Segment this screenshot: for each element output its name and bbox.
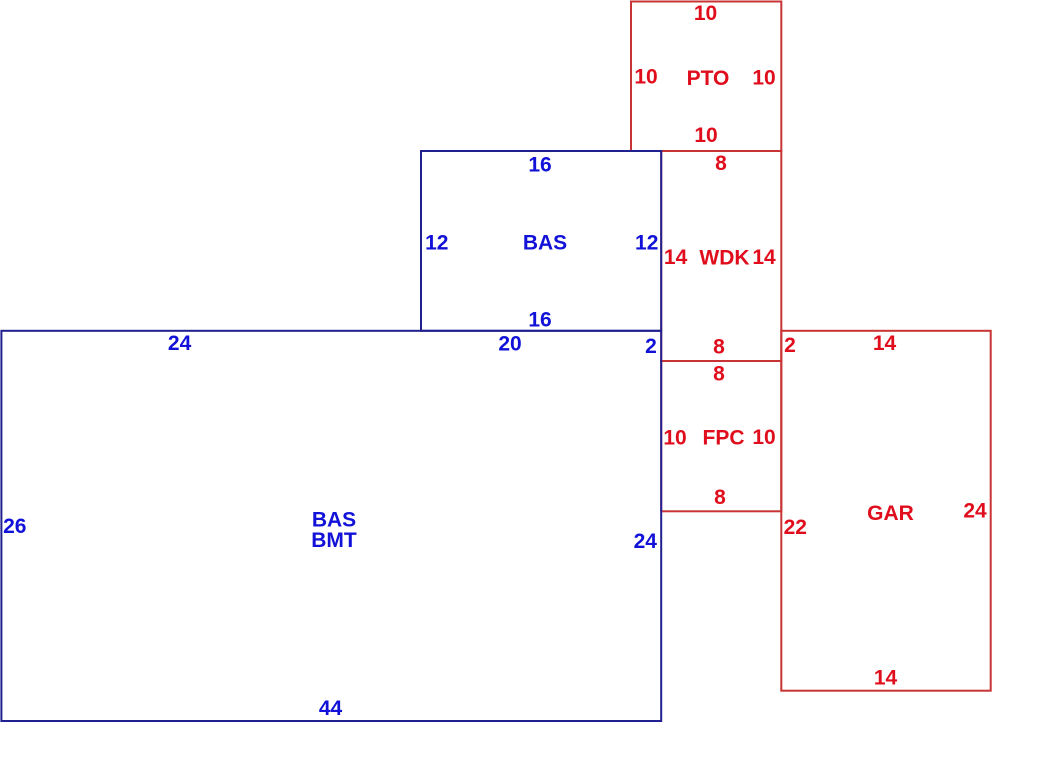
svg-text:BAS: BAS [523, 232, 567, 255]
svg-text:26: 26 [3, 515, 26, 538]
svg-text:FPC: FPC [703, 427, 745, 450]
room BAS outline [421, 151, 661, 331]
svg-text:GAR: GAR [867, 502, 914, 525]
svg-text:12: 12 [635, 232, 658, 255]
svg-text:10: 10 [694, 2, 717, 25]
svg-text:24: 24 [168, 332, 192, 355]
svg-text:14: 14 [752, 246, 776, 269]
svg-text:24: 24 [963, 500, 987, 523]
svg-text:2: 2 [645, 335, 657, 358]
svg-text:10: 10 [752, 426, 775, 449]
svg-text:14: 14 [874, 667, 898, 690]
room BAS BMT outline [1, 331, 661, 721]
svg-text:44: 44 [319, 697, 343, 720]
room GAR outline [781, 331, 990, 691]
svg-text:8: 8 [714, 486, 726, 509]
svg-text:10: 10 [752, 67, 775, 90]
svg-text:16: 16 [528, 154, 551, 177]
svg-text:WDK: WDK [699, 247, 749, 270]
svg-text:12: 12 [425, 232, 448, 255]
svg-text:20: 20 [498, 333, 521, 356]
svg-text:22: 22 [784, 516, 807, 539]
svg-text:2: 2 [784, 334, 796, 357]
svg-text:8: 8 [713, 336, 725, 359]
svg-text:10: 10 [694, 124, 717, 147]
svg-text:8: 8 [713, 363, 725, 386]
svg-text:PTO: PTO [687, 67, 730, 90]
svg-text:14: 14 [664, 246, 688, 269]
room WDK outline [661, 151, 781, 361]
svg-text:10: 10 [663, 426, 686, 449]
room FPC outline [661, 361, 781, 511]
svg-text:8: 8 [715, 152, 727, 175]
svg-text:14: 14 [873, 332, 897, 355]
room PTO outline [631, 2, 781, 152]
svg-text:BMT: BMT [311, 529, 357, 552]
svg-text:24: 24 [634, 530, 658, 553]
svg-text:16: 16 [528, 308, 551, 331]
svg-text:10: 10 [634, 66, 657, 89]
